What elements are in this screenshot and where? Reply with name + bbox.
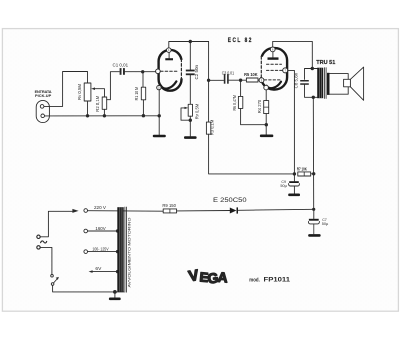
ground (pentode cathode) xyxy=(260,135,273,138)
svg-text:AVVOLGIMENTO MOTORINO: AVVOLGIMENTO MOTORINO xyxy=(126,218,131,288)
svg-text:TRU 51: TRU 51 xyxy=(316,60,336,66)
ground (triode cathode) xyxy=(153,135,166,138)
wire mains b to switch xyxy=(40,247,52,274)
wire pentode anode to transformer xyxy=(273,41,313,68)
node rectifier output xyxy=(312,208,315,211)
svg-text:Rv 0,5M: Rv 0,5M xyxy=(194,103,199,119)
AC symbol xyxy=(41,241,47,243)
ground (C7) xyxy=(308,234,320,237)
wire R3 to B+ rail xyxy=(209,134,294,174)
wire input hot: J1 pin1 to volume pot top xyxy=(44,72,88,107)
wire R9 to diode xyxy=(177,210,230,212)
node primary bottom xyxy=(312,96,315,99)
node coupling tap xyxy=(207,79,210,82)
wire 6V heater tap xyxy=(92,271,118,273)
wire switch to winding bottom xyxy=(53,285,124,292)
wire R2 bottom to ground bus xyxy=(103,109,105,116)
node 100-125V tap xyxy=(116,250,119,253)
label ENTRATA PICK-UP xyxy=(35,89,52,98)
capacitor C2 50n xyxy=(186,70,195,72)
svg-text:160V: 160V xyxy=(95,226,105,231)
mains terminal b xyxy=(37,246,40,249)
wire diode to reservoir node xyxy=(238,209,314,210)
transformer T1 core xyxy=(125,207,127,292)
svg-text:mod.: mod. xyxy=(249,277,260,283)
capacitor C9 50u filter xyxy=(293,174,295,181)
wire R6 to ground node xyxy=(241,108,267,124)
svg-text:100- 125V: 100- 125V xyxy=(92,247,108,252)
svg-text:50µ: 50µ xyxy=(322,222,328,226)
wire R4 to ground xyxy=(265,114,267,135)
resistor R5 10K grid stopper xyxy=(246,78,258,82)
resistor R9 150 xyxy=(163,209,176,213)
svg-text:R4 270: R4 270 xyxy=(257,99,262,113)
wire 160V tap xyxy=(88,230,118,232)
transformer core xyxy=(325,68,327,99)
node grid 2 stage xyxy=(239,79,242,82)
wire anode down to R3 xyxy=(208,42,210,123)
diode D1 E250C50 xyxy=(230,208,237,214)
pin 1 (anode) of V1a xyxy=(167,48,172,53)
node winding bottom xyxy=(113,290,117,294)
svg-text:R1 10 M: R1 10 M xyxy=(134,86,139,100)
pin 2 of J1 xyxy=(41,114,45,118)
node cathode/bus xyxy=(158,114,161,117)
switch S1 xyxy=(51,275,54,278)
pin 6 (anode) of V1b xyxy=(270,47,275,52)
wire R5 to pentode grid xyxy=(258,79,259,81)
svg-text:R6 0,47M: R6 0,47M xyxy=(232,95,237,111)
ground (mains/chassis) xyxy=(109,298,121,301)
node 6V tap xyxy=(116,270,119,273)
node RV1 bottom xyxy=(86,114,89,117)
wire secondary loop xyxy=(330,74,349,95)
capacitor C7 50u reservoir xyxy=(313,209,315,218)
dashed shared-envelope edge xyxy=(260,57,262,78)
svg-text:R9 150: R9 150 xyxy=(162,203,176,208)
node raw B+ / R7 xyxy=(312,172,315,175)
pin 3 (control grid) of V1b xyxy=(259,78,264,83)
pin 5 (cathode) of V1a xyxy=(157,85,161,89)
wire mains a to selector xyxy=(40,211,73,237)
capacitor C1 0.01 xyxy=(120,68,122,75)
tube V1a triode envelope xyxy=(159,50,182,91)
svg-text:C1 0,01: C1 0,01 xyxy=(113,63,129,68)
ground (tone pot) xyxy=(184,136,197,139)
svg-text:FP1011: FP1011 xyxy=(264,276,291,283)
selector arrow xyxy=(72,209,78,213)
ground (C9) xyxy=(288,194,300,197)
wire RV2 wiper to bottom xyxy=(181,108,190,120)
wire RV1 bottom to ground bus xyxy=(87,101,89,116)
connector J1 (pickup input) xyxy=(36,100,49,122)
svg-text:PICK-UP: PICK-UP xyxy=(35,93,52,98)
pin 8 (cathode) of V1b xyxy=(264,85,269,90)
wiper arrow of RV2 xyxy=(185,107,189,109)
node RV2 bottom xyxy=(189,119,192,122)
wire R7 right to B+ raw xyxy=(311,173,314,175)
resistor R6 0.47M grid leak xyxy=(240,80,242,96)
wire 220V tap to R9 xyxy=(88,210,164,213)
cathode of V1b xyxy=(267,82,281,88)
wire C1 to triode grid xyxy=(125,71,156,73)
node screen/B+ rail xyxy=(293,172,296,175)
node R2 bottom xyxy=(103,114,106,117)
wire C3 to R5 xyxy=(229,79,247,81)
pin 1 of J1 xyxy=(40,105,44,109)
svg-text:A: A xyxy=(217,270,228,286)
resistor R3 0.1M plate load xyxy=(206,122,210,134)
resistor R7 10K filter xyxy=(298,172,311,176)
svg-text:R5 10K: R5 10K xyxy=(244,72,258,77)
transformer T1 winding xyxy=(117,207,123,292)
tap terminal 100-125V xyxy=(84,250,88,254)
potentiometer RV1 0.5M volume xyxy=(84,83,91,101)
node 160V tap xyxy=(116,229,119,232)
svg-text:C8 5,6n: C8 5,6n xyxy=(294,72,299,88)
mains terminal a xyxy=(37,235,40,238)
capacitor C3 0.01 xyxy=(224,74,226,84)
svg-text:R7 10K: R7 10K xyxy=(297,166,307,171)
svg-text:220 V: 220 V xyxy=(94,205,107,210)
wire cathode to R4 xyxy=(265,90,267,101)
node tone tap xyxy=(189,40,192,43)
wire 100-125V tap xyxy=(88,251,118,253)
pin 2 (grid) of V1a xyxy=(156,69,161,74)
wire RV1 wiper to R2 top xyxy=(95,89,105,97)
svg-text:E 250C50: E 250C50 xyxy=(213,198,247,204)
wire anode rail V1a xyxy=(169,42,209,48)
wiper arrow of RV1 xyxy=(91,87,95,90)
logo VEGA xyxy=(187,267,228,287)
tap terminal 160V xyxy=(84,229,88,233)
grid dashes of V1a xyxy=(161,70,178,72)
wire C2 to RV2 xyxy=(189,75,191,104)
cathode of V1a xyxy=(161,81,177,88)
svg-text:R3 0,1M: R3 0,1M xyxy=(210,119,215,135)
transformer TRU51 primary winding xyxy=(312,69,317,98)
wire ground bus xyxy=(45,115,160,117)
grid 2 dashes of V1b xyxy=(267,69,283,71)
wire primary bottom to B+ xyxy=(312,97,314,209)
tube V1b pentode envelope xyxy=(261,48,287,89)
svg-text:Rv 0,5M: Rv 0,5M xyxy=(77,83,82,100)
wire coupling to C3 xyxy=(209,79,224,81)
svg-text:ECL 82: ECL 82 xyxy=(228,37,253,44)
svg-text:6V: 6V xyxy=(95,266,101,271)
wire R2 top to C1 xyxy=(107,72,120,100)
node cathode ground xyxy=(265,123,268,126)
dashed shared-envelope edge xyxy=(180,59,182,79)
wire RV2 to ground xyxy=(189,116,191,136)
resistor R4 270 cathode bias xyxy=(264,101,269,114)
node primary top xyxy=(311,67,314,70)
resistor R2 0.1M xyxy=(102,97,107,109)
pin 7 (screen grid) of V1b xyxy=(283,68,288,73)
wire to chassis ground xyxy=(114,292,116,298)
wire tone branch down xyxy=(189,42,191,70)
potentiometer RV2 0.5M tone xyxy=(188,104,192,116)
grid 1 dashes of V1b xyxy=(264,79,281,81)
node grid / R1 top xyxy=(141,70,144,73)
transformer secondary winding xyxy=(327,73,330,95)
speaker LS1 xyxy=(344,79,351,87)
wire cathode to ground xyxy=(158,90,160,135)
svg-text:C2 50n: C2 50n xyxy=(194,64,199,79)
node R1 bottom xyxy=(142,114,145,117)
wire screen to B+ xyxy=(288,70,295,173)
capacitor C8 5.6n across primary xyxy=(305,69,313,80)
anode plate of V1a xyxy=(165,58,173,60)
resistor R1 10M grid leak xyxy=(142,72,144,87)
grid 3 dashes of V1b xyxy=(267,63,282,65)
svg-text:R2 0,1M: R2 0,1M xyxy=(95,95,100,112)
anode plate of V1b xyxy=(268,57,279,59)
svg-text:C3 0,01: C3 0,01 xyxy=(222,70,235,75)
tap terminal 220V xyxy=(84,209,88,213)
svg-text:50µ: 50µ xyxy=(280,184,286,188)
